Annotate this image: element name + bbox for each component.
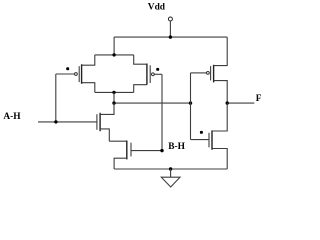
wire N2 drain lead (109, 140, 127, 142)
ground symbol triangle (161, 177, 180, 187)
wire N3 source lead (212, 149, 227, 170)
wire Vdd stub (169, 21, 171, 37)
pmos P2 channel bar (146, 64, 148, 85)
pmos P3 gate bubble (207, 72, 210, 75)
wire A-H input line (38, 121, 97, 123)
wire N1 drain lead (100, 103, 114, 114)
junction top bus dot (112, 53, 115, 56)
wire pullup top bus (95, 54, 134, 56)
pmos P2 gate bubble (152, 73, 155, 76)
nmos N3 gate bar (208, 133, 210, 148)
label Vdd (148, 3, 166, 13)
wire NAND output line (114, 102, 191, 104)
pmos P3 channel bar (213, 65, 215, 83)
wire P2 drain lead (134, 85, 147, 93)
wire B-H riser (161, 74, 163, 150)
marker dot near P1 gate (66, 67, 69, 70)
nmos N2 gate bar (130, 143, 132, 157)
wire P3 source lead and right rail (214, 37, 228, 66)
junction NAND output left dot (112, 101, 115, 104)
wire N1 source lead (100, 129, 109, 141)
wire left drop to pullup bus (113, 37, 115, 55)
nmos N1 gate bar (96, 114, 98, 130)
svg-text:F: F (256, 94, 262, 104)
wire P2 gate lead (154, 73, 162, 75)
wire N3 gate lead (191, 139, 210, 141)
wire ground stub (170, 169, 172, 177)
junction NAND output right dot (189, 101, 192, 104)
wire N3 drain lead (212, 103, 227, 131)
wire N2 source lead (114, 158, 127, 169)
wire P2 source lead (134, 55, 147, 64)
nmos N2 channel bar (126, 141, 128, 160)
wire inverter input riser (190, 73, 192, 140)
pmos P1 gate bubble (75, 73, 78, 76)
junction A-H dot (54, 120, 57, 123)
junction Vdd rail dot (169, 35, 172, 38)
marker dot near P2 gate (156, 68, 159, 71)
junction ground dot (169, 167, 172, 170)
wire output line to F (227, 102, 254, 104)
nmos N1 channel bar (99, 113, 101, 131)
nmos N3 channel bar (211, 130, 213, 149)
wire A-H riser (55, 74, 57, 122)
svg-text:B-H: B-H (168, 142, 185, 152)
label A-H (3, 112, 21, 122)
svg-text:Vdd: Vdd (148, 3, 166, 13)
junction B-H dot (160, 149, 163, 152)
wire pullup bottom bus (95, 91, 134, 93)
wire P1 drain lead (82, 83, 95, 93)
wire top rail (114, 36, 227, 38)
wire P3 gate lead (191, 72, 207, 74)
junction bottom bus dot (112, 91, 115, 94)
wire P3 drain lead (214, 81, 228, 104)
svg-text:A-H: A-H (3, 112, 21, 122)
wire mid riser to NAND output (113, 92, 115, 103)
pmos P1 channel bar (81, 64, 83, 84)
wire N2 gate lead B-H (131, 150, 162, 152)
junction F node dot (226, 101, 229, 104)
wire P1 gate lead (56, 73, 75, 75)
Vdd terminal circle (168, 17, 172, 21)
wire P1 source lead (82, 55, 95, 65)
marker dot near N3 gate (200, 131, 203, 134)
pmos P1 gate bar (78, 66, 80, 82)
pmos P2 gate bar (149, 65, 151, 83)
label F (256, 94, 262, 104)
pmos P3 gate bar (210, 66, 212, 80)
wire ground rail (114, 168, 227, 170)
label B-H (168, 142, 185, 152)
